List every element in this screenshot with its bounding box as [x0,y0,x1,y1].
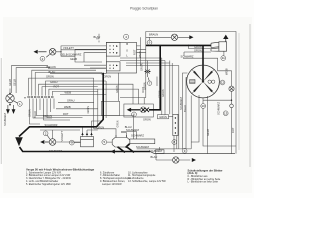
svg-text:GRÜN: GRÜN [161,89,165,97]
svg-text:13. Schlußleuchte, Lampe 12V 5: 13. Schlußleuchte, Lampe 12V 5W [128,180,166,183]
svg-text:SCHWARZ: SCHWARZ [131,133,144,137]
svg-text:GELB: GELB [206,129,210,136]
svg-text:GRÜN: GRÜN [97,125,105,129]
svg-text:BLAU: BLAU [151,155,158,159]
svg-text:SCHWARZ: SCHWARZ [45,123,58,127]
svg-text:GRÜN: GRÜN [143,82,147,90]
svg-text:SCHWARZ: SCHWARZ [136,145,149,149]
svg-text:VIOLETT: VIOLETT [60,130,64,141]
svg-text:GRÜN: GRÜN [140,63,144,71]
svg-text:ROT: ROT [132,49,136,55]
svg-text:5: 5 [103,140,105,144]
svg-text:GRÜN: GRÜN [104,75,112,79]
svg-text:L - Blinklichter an linke Seit: L - Blinklichter an linke Seite [188,180,219,183]
svg-text:B: B [126,42,128,46]
svg-text:WEIB: WEIB [64,105,71,109]
svg-text:Lampen 12V/21W: Lampen 12V/21W [102,183,122,186]
svg-text:GRÜN: GRÜN [194,45,202,49]
svg-text:BLAU: BLAU [49,70,56,74]
svg-text:2: 2 [45,131,47,135]
svg-text:L: L [126,54,128,58]
svg-text:5. Elektrischer Signalhorngebe: 5. Elektrischer Signalhorngeber 12V 18W [26,183,71,186]
svg-text:GELB: GELB [8,79,12,86]
svg-text:BLAU: BLAU [94,35,101,39]
svg-text:7: 7 [149,81,151,85]
svg-text:4: 4 [125,35,127,39]
svg-text:10: 10 [202,104,206,108]
svg-text:Piaggio Schaltplan: Piaggio Schaltplan [130,7,158,11]
svg-text:SCHWARZ: SCHWARZ [126,128,139,132]
svg-text:GRÜN: GRÜN [159,115,167,119]
svg-text:8: 8 [173,140,175,144]
svg-text:9: 9 [184,149,186,153]
svg-text:BRAUN: BRAUN [43,114,52,118]
svg-text:BRAUN: BRAUN [47,65,56,69]
svg-text:3: 3 [71,141,73,145]
svg-text:GELB-SCHWARZ: GELB-SCHWARZ [61,52,82,56]
svg-text:2: 2 [42,57,44,61]
svg-text:ROT: ROT [54,85,60,89]
svg-text:GRÜN: GRÜN [117,120,120,127]
svg-text:GELB: GELB [13,79,17,86]
svg-text:13: 13 [224,111,228,115]
svg-text:WEIB: WEIB [65,91,72,95]
svg-text:ROT: ROT [63,112,69,116]
svg-text:SCHWARZ: SCHWARZ [149,149,162,153]
svg-text:0: 0 [126,48,128,52]
svg-text:GRAU: GRAU [67,99,75,103]
svg-text:1: 1 [19,102,21,106]
svg-text:GRÜN: GRÜN [143,118,151,122]
svg-text:SCHWARZ: SCHWARZ [217,102,221,115]
svg-text:GRÜN: GRÜN [86,106,90,114]
svg-text:GRÜN: GRÜN [115,85,119,93]
svg-text:BLAU: BLAU [33,111,37,118]
svg-text:GRÜN: GRÜN [158,90,162,98]
svg-text:9: 9 [149,41,151,45]
svg-text:VIOLETT: VIOLETT [63,46,74,50]
svg-text:BRAUN: BRAUN [149,33,158,37]
svg-text:GRÜN: GRÜN [46,74,54,78]
svg-text:WEIB: WEIB [138,51,142,58]
svg-text:GRÜN: GRÜN [194,49,202,53]
svg-text:GRÜN: GRÜN [28,109,32,117]
svg-text:6: 6 [133,113,135,117]
svg-text:WEIB: WEIB [224,68,228,75]
svg-text:SCHWARZ: SCHWARZ [3,113,7,126]
svg-text:SCHWARZ: SCHWARZ [181,55,194,59]
svg-text:ROT: ROT [231,127,235,133]
svg-text:11: 11 [222,56,225,60]
svg-text:SCHWARZ: SCHWARZ [49,149,62,153]
svg-text:12: 12 [221,81,225,85]
svg-text:BLAU: BLAU [183,105,187,112]
svg-text:SCHWARZ: SCHWARZ [179,97,183,110]
svg-text:GRAU: GRAU [50,80,58,84]
svg-text:GELB: GELB [70,57,77,61]
